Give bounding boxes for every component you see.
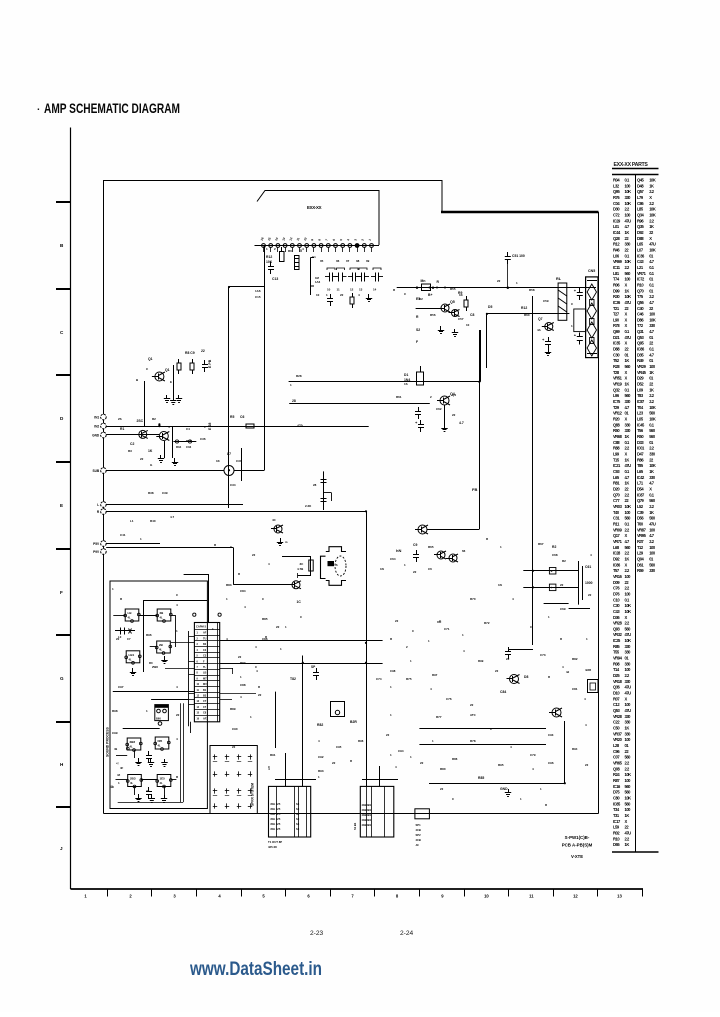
connector CN-R [101, 509, 107, 515]
K1 pin circle [158, 722, 162, 726]
wire into B1 [116, 755, 127, 757]
svg-text:VR65: VR65 [613, 761, 623, 766]
IC U1 pin 3 [276, 244, 280, 248]
bracket rect near CN5 [574, 309, 586, 332]
svg-text:1E5: 1E5 [160, 777, 166, 781]
transistor Q10 [449, 554, 457, 562]
T2 pin up 2 [379, 766, 381, 786]
svg-text:VR45: VR45 [637, 370, 647, 375]
svg-text:10: 10 [327, 288, 331, 292]
wire Q13 down [564, 721, 566, 783]
svg-text:10K: 10K [625, 201, 632, 206]
capacitor CA24 [248, 774, 252, 776]
svg-text:C37: C37 [236, 459, 242, 463]
capacitor CA13 [237, 756, 241, 758]
ground [178, 395, 180, 399]
svg-text:L: L [97, 503, 99, 507]
wire CN2 out y643 [220, 640, 383, 642]
schematic frame bottom edge [104, 813, 599, 815]
svg-text:R2: R2 [562, 559, 566, 563]
svg-text:R0: R0 [288, 249, 292, 253]
svg-text:22: 22 [116, 637, 120, 641]
svg-text:22: 22 [252, 553, 256, 557]
CN2 bus bottom hook [190, 722, 192, 733]
capacitor C42 [420, 420, 422, 425]
capacitor C52 [579, 288, 581, 293]
svg-text:C69: C69 [560, 607, 566, 611]
capacitor CA34 [248, 790, 252, 792]
svg-text:4F: 4F [120, 766, 124, 770]
ground [173, 397, 175, 401]
svg-text:T1 OUT 8P: T1 OUT 8P [268, 840, 282, 844]
svg-text:IC17: IC17 [613, 819, 621, 824]
svg-text:81E 4Z5: 81E 4Z5 [271, 817, 281, 821]
svg-text:C9: C9 [413, 543, 417, 547]
IC U1 pin 13 [348, 244, 352, 248]
bottom ruler tick 10 [508, 889, 510, 897]
parts table column divider [635, 175, 637, 852]
svg-text:13: 13 [359, 288, 363, 292]
capacitor CA31 [213, 790, 217, 792]
svg-text:S8: S8 [296, 822, 300, 826]
ground [174, 458, 176, 462]
wire left into FB1 [106, 470, 224, 472]
wire net y783 [429, 783, 565, 785]
svg-text:4.7B: 4.7B [297, 567, 304, 571]
IC U1 pin 11 [334, 244, 338, 248]
schematic frame thick top-right segment [441, 211, 599, 213]
IC U1 pin 16 [370, 244, 374, 248]
svg-text:IC36: IC36 [637, 253, 645, 258]
wire into Q11 [233, 584, 292, 586]
svg-text:R87: R87 [240, 661, 246, 665]
component chain x323 vertical [323, 471, 325, 510]
svg-text:R5: R5 [230, 415, 234, 419]
svg-text:47U: 47U [625, 300, 632, 305]
svg-text::S: :S [335, 563, 338, 567]
B1 extra pin circle [126, 747, 129, 750]
svg-text:IC86: IC86 [613, 562, 621, 567]
svg-text:C73: C73 [540, 653, 546, 657]
svg-text:47U: 47U [625, 685, 632, 690]
svg-text:VR87: VR87 [637, 527, 647, 532]
wire subbox bottom y802 [118, 802, 184, 804]
svg-text:R8 C9: R8 C9 [185, 351, 195, 355]
svg-text:B+: B+ [428, 293, 432, 297]
svg-text:10K: 10K [266, 260, 273, 264]
connector J9 on bottom edge [415, 809, 430, 819]
parts table header underline [612, 168, 659, 170]
svg-text:1N: 1N [498, 583, 502, 587]
wire net L horizontal [106, 504, 243, 506]
svg-text:C92: C92 [318, 755, 324, 759]
svg-text:FB: FB [472, 487, 477, 492]
svg-text:4L: 4L [160, 616, 163, 620]
svg-text:MV: MV [203, 683, 207, 686]
svg-text:E: E [60, 503, 63, 508]
svg-text:R93: R93 [318, 769, 324, 773]
wire U1 pin1 down [264, 248, 266, 471]
wire net VCC horizontal y288 [397, 287, 596, 289]
junction dots on VCC [416, 287, 418, 289]
bottom ruler tick 4 [241, 889, 243, 897]
svg-text:1K: 1K [649, 183, 654, 188]
resistor R32 [192, 359, 194, 363]
IC U1 pin row line [255, 245, 380, 247]
transformer T1 body [269, 786, 311, 837]
transistor Q3 [159, 432, 168, 441]
svg-text:2-23: 2-23 [310, 930, 324, 937]
svg-text:1K: 1K [649, 469, 654, 474]
svg-text:D5: D5 [488, 305, 492, 309]
svg-text:1K: 1K [649, 370, 654, 375]
svg-text:E PB: E PB [208, 359, 212, 368]
resistor R11 [280, 252, 285, 262]
svg-text:IC86: IC86 [637, 347, 645, 352]
bottom ruler tick 8 [419, 889, 421, 897]
CN5 contact diamond 4 [587, 340, 596, 356]
svg-text:06: 06 [336, 259, 340, 263]
svg-text:L7: L7 [227, 452, 231, 456]
CN2 left bus vertical [188, 631, 190, 726]
resistor R36 [242, 426, 246, 428]
transistor Q1 [155, 372, 164, 381]
wire subbox y699 [151, 699, 189, 701]
bottom ruler tick 13 [642, 889, 644, 897]
svg-text:4.7: 4.7 [170, 515, 175, 519]
svg-text:81E 4Z5: 81E 4Z5 [271, 807, 281, 811]
wire CN2 out right pair y728 [419, 728, 546, 730]
svg-text:10K: 10K [649, 417, 656, 422]
T1 top bar [275, 779, 316, 781]
svg-text:81E 4Z5: 81E 4Z5 [271, 827, 281, 831]
svg-text:VR19: VR19 [613, 382, 623, 387]
svg-text:47U: 47U [625, 708, 632, 713]
CN2 left bus stub 4 [189, 668, 195, 670]
connector CN-IN2 [101, 423, 107, 429]
svg-text:R80: R80 [440, 767, 446, 771]
ground [164, 656, 166, 660]
svg-text:IC28: IC28 [613, 551, 621, 556]
ground [150, 759, 152, 763]
capacitor C97 [148, 787, 150, 792]
svg-text:1N: 1N [380, 567, 384, 571]
op-amp A1 [125, 609, 139, 621]
CN2 row line 12 [194, 692, 219, 694]
svg-text:Q1: Q1 [165, 368, 170, 372]
svg-text:SUB: SUB [92, 469, 99, 473]
IC U1 pin 2 [269, 244, 273, 248]
CN2 left stub long 1 [171, 642, 189, 644]
resistor R21 [352, 293, 354, 297]
svg-text:C59: C59 [543, 299, 549, 303]
svg-text:4L: 4L [159, 648, 162, 652]
CN5 contact diamond 3 [587, 322, 596, 338]
ground [440, 326, 442, 330]
svg-text:C36: C36 [200, 437, 206, 441]
svg-text:C34: C34 [230, 483, 236, 487]
CN2 row line 1 [194, 629, 219, 631]
ground [164, 759, 166, 763]
wire net IN2 horizontal [106, 426, 369, 428]
wire net E vertical x533 [532, 296, 534, 645]
left ruler tick 1 [56, 201, 71, 203]
svg-text:VR20: VR20 [613, 737, 623, 742]
svg-text:4d: 4d [566, 670, 570, 674]
svg-text:C1: C1 [312, 255, 316, 259]
left ruler tick 8 [56, 806, 71, 808]
svg-text:1A6: 1A6 [315, 280, 321, 284]
svg-text:C33: C33 [186, 445, 192, 449]
svg-text:22: 22 [140, 457, 144, 461]
svg-text:VR94: VR94 [613, 656, 623, 661]
svg-text:EXX-XX PARTS: EXX-XX PARTS [614, 162, 649, 168]
svg-text:1S: 1S [404, 382, 408, 386]
svg-text:C64: C64 [390, 557, 396, 561]
svg-text:1K: 1K [625, 288, 630, 293]
left border ruler line [70, 128, 72, 890]
svg-text:IC85: IC85 [613, 801, 621, 806]
svg-text:VR69: VR69 [613, 259, 623, 264]
svg-text:AF: AF [203, 632, 207, 635]
wire into Q5 [416, 308, 441, 310]
svg-text:C39: C39 [162, 491, 168, 495]
svg-text:R82: R82 [572, 657, 578, 661]
svg-text:C88: C88 [240, 683, 246, 687]
svg-text:M7: M7 [203, 677, 207, 680]
T2 internal lines [366, 786, 368, 837]
svg-text:RL: RL [556, 277, 562, 281]
svg-text:VR28: VR28 [613, 621, 623, 626]
svg-text:R86: R86 [452, 757, 458, 761]
svg-text:SOUND PROCESS: SOUND PROCESS [106, 726, 110, 757]
wire net x302 vertical [302, 656, 304, 787]
svg-text:4.7: 4.7 [459, 421, 464, 425]
CN2 inner right line [217, 623, 219, 722]
capacitor C11 [270, 262, 272, 267]
vertical drop Q3 [164, 441, 166, 458]
op-amp IC U1 body outline [257, 191, 379, 246]
wire net C down from Q4 [444, 405, 446, 424]
wire VCC branch y314 [487, 313, 570, 315]
op-amp A3 [157, 641, 171, 653]
CN2 row line 16 [194, 715, 219, 717]
svg-text:VR29: VR29 [637, 364, 647, 369]
svg-text:22: 22 [585, 763, 589, 767]
svg-text:C68: C68 [552, 553, 558, 557]
svg-text:11: 11 [337, 288, 341, 292]
svg-text:05: 05 [320, 259, 324, 263]
speaker terminal box [328, 561, 335, 566]
bottom ruler tick 9 [464, 889, 466, 897]
transistor Q11 [292, 581, 300, 589]
svg-text:22: 22 [440, 787, 444, 791]
svg-text:GND: GND [500, 787, 508, 791]
svg-text:10K: 10K [649, 207, 656, 212]
svg-text:VR09: VR09 [613, 527, 623, 532]
wire net GND horizontal [106, 434, 159, 436]
schematic frame outline [104, 181, 443, 814]
svg-text:22: 22 [420, 761, 424, 765]
speaker jack J3 outer body [321, 556, 326, 578]
svg-text:1K: 1K [625, 726, 630, 731]
IC U1 pin 6 [298, 244, 302, 248]
CN2 corner circle right [218, 613, 221, 616]
junction dots [158, 423, 160, 425]
op-amp C2 [157, 775, 171, 787]
svg-text:IC75: IC75 [613, 399, 621, 404]
drop C2 [164, 787, 166, 796]
CN2 left bus stub 2 [189, 642, 195, 644]
svg-text:C81: C81 [572, 687, 578, 691]
svg-text:R78: R78 [470, 739, 476, 743]
svg-text:10K: 10K [625, 638, 632, 643]
svg-text:22: 22 [470, 703, 474, 707]
bus vertical in sub-board [143, 600, 145, 672]
capacitor CA11 [213, 756, 217, 758]
svg-text:R89: R89 [230, 707, 236, 711]
T2 top bar [362, 779, 398, 781]
svg-text:L1: L1 [130, 519, 134, 523]
component K2 at frame edge [588, 680, 599, 693]
svg-text:22: 22 [176, 713, 180, 717]
wire C row through [116, 779, 128, 781]
svg-text:IC87: IC87 [637, 492, 645, 497]
svg-text:VR12: VR12 [613, 411, 623, 416]
IC U1 pin 12 [341, 244, 345, 248]
power connector CN5 body [586, 277, 598, 358]
svg-text:41B3B1: 41B3B1 [362, 813, 372, 817]
svg-text:22: 22 [232, 745, 236, 749]
svg-text:10K: 10K [625, 504, 632, 509]
transistor Q5 [441, 304, 449, 312]
left ruler tick 4 [56, 461, 71, 463]
svg-text:+: + [551, 586, 553, 590]
svg-text:C71: C71 [444, 627, 450, 631]
capacitor C63 plates [578, 561, 580, 605]
wire net R vertical to T2 [366, 512, 368, 787]
bottom border ruler line [71, 888, 644, 890]
svg-text:22: 22 [276, 625, 280, 629]
transistor Q14 [274, 525, 282, 533]
svg-text:R91: R91 [270, 753, 276, 757]
wire C61 row [523, 570, 578, 572]
wire net P9V stub [106, 547, 233, 549]
svg-text:10K: 10K [649, 178, 656, 183]
transistor Q6 [452, 310, 459, 317]
T1 pin up 1 [285, 753, 287, 786]
svg-text:R72: R72 [484, 621, 490, 625]
wire into A1 [113, 615, 125, 617]
svg-text:10K: 10K [625, 772, 632, 777]
connector CN-GND [101, 432, 107, 438]
resistor R71 vertical [310, 557, 312, 576]
svg-text:C96: C96 [548, 761, 554, 765]
capacitor C31 [204, 360, 206, 365]
svg-text:VR03: VR03 [613, 504, 623, 509]
capacitor C54 [548, 337, 550, 342]
left ruler tick 6 [56, 634, 71, 636]
svg-text:R70: R70 [470, 597, 476, 601]
IC U1 pin 14 [355, 244, 359, 248]
svg-text:1K: 1K [625, 842, 630, 847]
svg-text:S-PW1(C)B-: S-PW1(C)B- [565, 835, 590, 840]
svg-text:2S: 2S [118, 417, 122, 421]
svg-text:10K: 10K [649, 405, 656, 410]
CN2 right short wire 1 [220, 693, 256, 695]
svg-text:22: 22 [495, 669, 499, 673]
svg-text:P5V: P5V [93, 542, 100, 546]
svg-text:·: · [37, 105, 40, 116]
CN2 left bus stub 3 [189, 661, 195, 663]
svg-text:S2: S2 [416, 328, 420, 332]
svg-text:1K: 1K [625, 358, 630, 363]
svg-text:2B3: 2B3 [130, 777, 136, 781]
svg-text:Q1: Q1 [148, 357, 153, 361]
schematic frame right edge [598, 212, 600, 814]
svg-text:1K: 1K [148, 449, 153, 453]
left ruler tick 2 [56, 288, 71, 290]
CN5 contact pad 2 [590, 319, 594, 325]
wire net x275 vertical [275, 692, 277, 748]
svg-text:IC25: IC25 [613, 638, 621, 643]
svg-text:E 28: E 28 [208, 423, 212, 430]
svg-text:R38: R38 [148, 491, 154, 495]
svg-text:13: 13 [617, 894, 622, 899]
svg-text:10K: 10K [625, 294, 632, 299]
svg-text:10K: 10K [625, 609, 632, 614]
svg-text:10K: 10K [625, 189, 632, 194]
svg-text:R94: R94 [572, 747, 578, 751]
ground [151, 795, 153, 799]
CN5 contact diamond 2 [587, 303, 596, 319]
bottom ruler tick 6 [330, 889, 332, 897]
wire subbox y728 [123, 728, 160, 730]
svg-text:R2: R2 [152, 417, 156, 421]
svg-text:IC36: IC36 [613, 300, 621, 305]
svg-text:C7: C7 [127, 637, 131, 641]
svg-text:1K: 1K [649, 387, 654, 392]
op-amp B2 [155, 737, 169, 749]
svg-text:IN1: IN1 [94, 415, 99, 419]
svg-text:C15: C15 [255, 295, 261, 299]
CN5 top bar [587, 280, 597, 282]
svg-text:LB1: LB1 [129, 653, 135, 657]
svg-text:41B3B1: 41B3B1 [362, 818, 372, 822]
bottom ruler tick 11 [553, 889, 555, 897]
svg-text:47U: 47U [625, 632, 632, 637]
op-amp B1 [127, 738, 141, 750]
wire CN2 out right pair y745 [419, 744, 546, 746]
audio sub-board box outline [110, 581, 207, 809]
wire net P5V stub [106, 543, 160, 545]
svg-text:C57: C57 [458, 317, 464, 321]
wire net P9V vertical [233, 548, 235, 585]
svg-text:22: 22 [413, 570, 417, 574]
CN2 left bus stub 7 [189, 699, 195, 701]
svg-text:R96: R96 [146, 633, 152, 637]
svg-text:1K: 1K [625, 382, 630, 387]
svg-text:IC72: IC72 [637, 277, 645, 282]
svg-text:F: F [416, 340, 418, 344]
wire stub y649 [509, 649, 533, 651]
svg-text:4Z: 4Z [117, 773, 121, 777]
CN2 row line 8 [194, 669, 219, 671]
wire CN2 top link [208, 574, 210, 622]
svg-text:E: E [170, 380, 172, 384]
svg-text:C98: C98 [390, 669, 396, 673]
capacitor C41 [418, 407, 420, 412]
